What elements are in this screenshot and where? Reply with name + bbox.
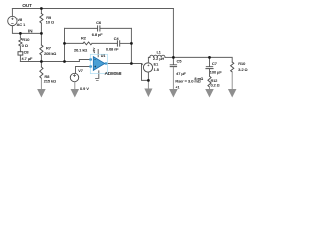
svg-text:IN: IN <box>28 28 33 33</box>
svg-text:R10: R10 <box>238 62 245 66</box>
svg-text:3.2 Ω: 3.2 Ω <box>238 68 247 72</box>
svg-text:AD8058: AD8058 <box>105 71 122 76</box>
svg-text:V8: V8 <box>18 18 23 22</box>
svg-text:4.7 µF: 4.7 µF <box>22 57 34 61</box>
svg-text:10 Ω: 10 Ω <box>46 20 54 24</box>
svg-text:2.2 µH: 2.2 µH <box>153 57 165 61</box>
svg-text:0.9 V: 0.9 V <box>80 87 89 91</box>
svg-text:R10: R10 <box>22 38 29 42</box>
svg-text:C6: C6 <box>96 21 101 25</box>
svg-text:R7: R7 <box>46 47 51 51</box>
svg-text:100 µF: 100 µF <box>210 70 223 74</box>
svg-text:C8: C8 <box>24 50 29 54</box>
svg-text:47 µF: 47 µF <box>176 72 186 76</box>
svg-text:8 mΩ: 8 mΩ <box>195 77 204 81</box>
svg-text:R8: R8 <box>45 75 50 79</box>
svg-text:+5V: +5V <box>92 48 96 53</box>
svg-text:−: − <box>94 58 96 62</box>
svg-text:0.2 Ω: 0.2 Ω <box>211 83 220 87</box>
svg-text:0.68 nF: 0.68 nF <box>106 47 119 51</box>
svg-text:205 kΩ: 205 kΩ <box>44 52 56 56</box>
svg-text:215 kΩ: 215 kΩ <box>44 80 56 84</box>
svg-text:C4: C4 <box>114 37 119 41</box>
svg-text:+1: +1 <box>175 85 179 89</box>
svg-text:0 Ω: 0 Ω <box>22 44 28 48</box>
svg-text:AC 1: AC 1 <box>17 23 25 27</box>
svg-text:OUT: OUT <box>22 3 32 8</box>
svg-text:E1: E1 <box>154 63 159 67</box>
svg-text:C7: C7 <box>212 62 217 66</box>
svg-text:1.5: 1.5 <box>154 68 159 72</box>
svg-text:+: + <box>94 65 96 69</box>
svg-text:C5: C5 <box>177 60 182 64</box>
svg-text:L1: L1 <box>157 51 161 55</box>
svg-text:26.1 kΩ: 26.1 kΩ <box>74 49 87 53</box>
svg-text:R9: R9 <box>46 16 51 20</box>
svg-text:U1: U1 <box>101 54 106 58</box>
svg-text:V7: V7 <box>78 69 83 73</box>
svg-text:R2: R2 <box>81 36 86 40</box>
svg-text:6.8 pF: 6.8 pF <box>92 33 103 37</box>
